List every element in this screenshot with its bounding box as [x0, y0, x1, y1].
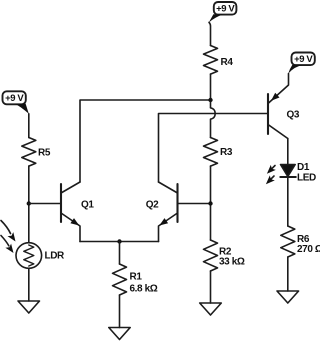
wire node to Q1 base — [29, 203, 61, 205]
wire hop over base line — [211, 108, 216, 138]
svg-text:Q1: Q1 — [81, 200, 94, 211]
ground (under R1) — [109, 328, 130, 340]
light arrow 2 out of LED — [266, 175, 275, 184]
photoresistor LDR — [16, 243, 65, 269]
resistor R6 — [281, 226, 295, 257]
wire R6 to ground — [287, 257, 289, 291]
wire Q1 collector up and right to R4 node — [80, 100, 211, 182]
wire R3 to R2 — [210, 166, 212, 240]
transistor Q3 — [268, 93, 300, 139]
wire +9V to R4 — [209, 22, 211, 45]
svg-text:LED: LED — [297, 173, 316, 184]
svg-text:6.8 kΩ: 6.8 kΩ — [130, 284, 158, 295]
ground (middle) — [200, 303, 222, 315]
wire Q2 base to R3/R2 node — [178, 203, 211, 205]
wire +9V to R5 — [28, 114, 30, 138]
resistor R4 — [204, 46, 218, 75]
svg-text:33 kΩ: 33 kΩ — [219, 257, 245, 268]
svg-text:LDR: LDR — [45, 251, 66, 262]
light arrow 1 out of LED — [267, 165, 276, 174]
transistor Q2 — [146, 182, 178, 242]
wire R1 to ground — [119, 295, 121, 328]
power label +9V (right) — [288, 53, 315, 74]
svg-text:+9 V: +9 V — [294, 54, 313, 65]
svg-text:270 Ω: 270 Ω — [297, 244, 320, 255]
svg-text:+9 V: +9 V — [216, 4, 235, 15]
wire shared emitters — [80, 241, 159, 243]
wire LED to R6 — [287, 177, 289, 226]
svg-text:Q2: Q2 — [146, 200, 159, 211]
node emitter junction — [117, 239, 121, 243]
light arrow 1 into LDR — [1, 221, 16, 242]
power label +9V (top) — [209, 2, 237, 23]
node Q2 base junction — [208, 201, 212, 205]
svg-text:R3: R3 — [220, 147, 233, 158]
svg-text:R4: R4 — [221, 57, 234, 68]
wire node to R1 — [119, 242, 121, 265]
wire Q3 collector to LED — [287, 139, 289, 165]
wire LDR to ground — [28, 268, 30, 301]
svg-text:R5: R5 — [38, 148, 51, 159]
light arrow 2 into LDR — [1, 236, 14, 254]
wire R5 to LDR — [28, 166, 30, 243]
svg-text:Q3: Q3 — [287, 110, 300, 121]
wire R2 to ground — [210, 271, 212, 303]
wire +9V to Q3 emitter — [268, 74, 289, 104]
resistor R1 — [113, 264, 127, 295]
LED D1 — [280, 162, 316, 184]
ground (left) — [18, 301, 40, 313]
wire Q2 collector up and right to Q3 base — [159, 114, 269, 183]
wire R4 down to node — [210, 74, 212, 107]
resistor R5 — [22, 138, 36, 167]
ground (right) — [277, 291, 299, 303]
resistor R2 — [204, 240, 218, 271]
transistor Q1 — [61, 182, 94, 242]
svg-text:R1: R1 — [130, 272, 143, 283]
power label +9V (left) — [3, 91, 29, 114]
resistor R3 — [204, 138, 218, 167]
svg-text:D1: D1 — [297, 162, 310, 173]
node collector Q1 / R4 — [208, 98, 212, 102]
svg-text:+9 V: +9 V — [5, 93, 24, 104]
node base Q1 junction — [27, 201, 31, 205]
